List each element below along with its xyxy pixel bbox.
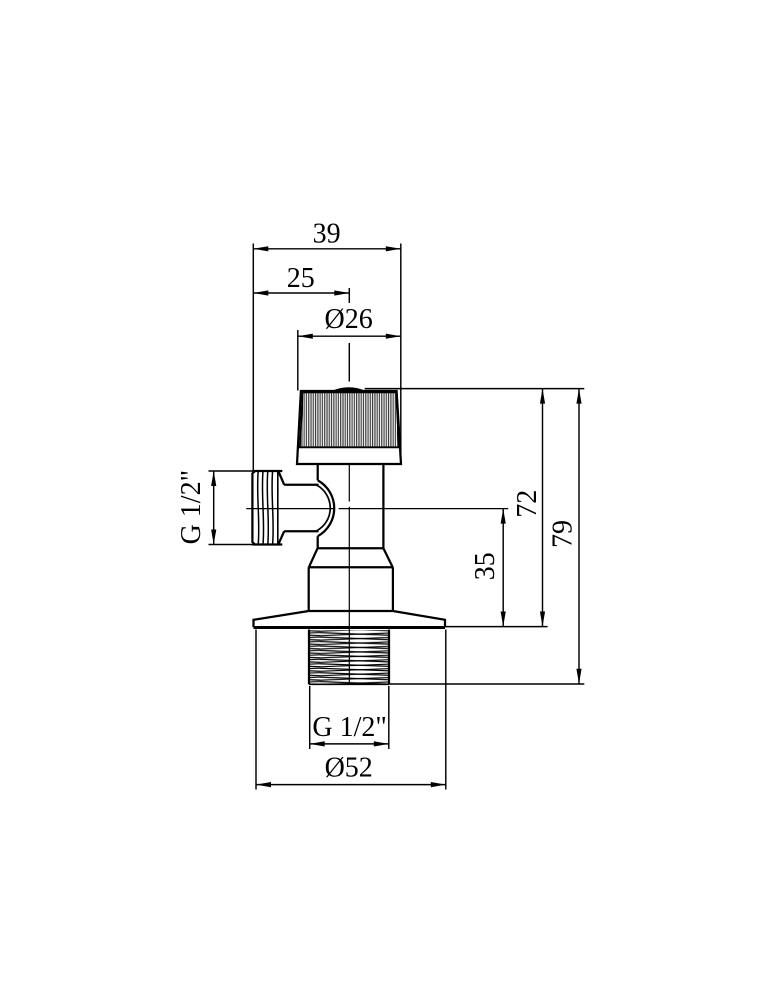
svg-text:39: 39 <box>313 219 341 250</box>
G1/2 left arrows <box>211 471 216 486</box>
svg-text:Ø52: Ø52 <box>325 753 373 784</box>
25 arrows <box>253 290 268 295</box>
horizontal centerline of side port <box>246 508 334 510</box>
side port top edge <box>252 470 282 472</box>
svg-text:72: 72 <box>512 490 543 518</box>
bottom thread left edge <box>308 630 310 685</box>
side port cone bottom <box>278 531 284 544</box>
svg-text:G 1/2": G 1/2" <box>312 712 386 743</box>
dim line 35 <box>502 509 504 627</box>
extension lines G1/2 bottom <box>309 686 311 749</box>
side port dome outer arc <box>318 480 334 536</box>
svg-text:79: 79 <box>547 520 578 548</box>
flange left slant <box>254 611 309 627</box>
79 arrows <box>576 389 581 404</box>
hex section left <box>308 567 310 611</box>
vertical centerline of valve <box>348 392 350 502</box>
extension lines Ø52 <box>255 630 257 790</box>
35 arrows <box>501 509 506 524</box>
side port thread crest 4 <box>272 471 273 545</box>
extension lines G1/2 left <box>209 470 254 472</box>
stem left (below side port) <box>317 536 319 548</box>
dim line G1/2 bottom <box>310 743 389 745</box>
svg-text:25: 25 <box>287 263 315 294</box>
side port neck top <box>284 484 318 486</box>
svg-text:35: 35 <box>470 552 501 580</box>
centerline above knob <box>348 343 350 382</box>
stem right <box>382 464 384 548</box>
knurl band <box>300 392 399 447</box>
side port bottom edge <box>252 543 282 545</box>
bottom thread bottom edge <box>309 683 389 685</box>
knob top stem bump <box>333 388 365 392</box>
thread bottom reference line (to 79 dim) <box>389 683 584 685</box>
side port end face <box>252 471 255 545</box>
dim line G1/2 left <box>213 471 215 545</box>
72 arrows <box>540 389 545 404</box>
side port thread crest 3 <box>267 471 268 545</box>
svg-text:Ø26: Ø26 <box>324 304 372 335</box>
39 arrows <box>253 246 268 251</box>
svg-text:G 1/2": G 1/2" <box>176 470 207 544</box>
Ø26 arrows <box>298 334 313 339</box>
Ø52 arrows <box>256 782 271 787</box>
side port thread crest 1 <box>258 471 259 545</box>
side port thread crest 2 <box>262 471 263 545</box>
dim line 25 <box>253 292 349 294</box>
extension line Ø26 left <box>297 330 299 391</box>
extension line right (39/Ø26 dims, down to knob corner) <box>400 244 402 464</box>
side port dome inner arc <box>316 485 330 531</box>
dim line Ø52 <box>256 784 446 786</box>
knob trapezoid <box>297 391 401 464</box>
dim line 39 <box>253 248 400 250</box>
side port thread end vertical <box>277 471 279 545</box>
side port neck bottom <box>284 530 318 532</box>
bottom thread hatch <box>309 630 389 684</box>
flange right slant <box>393 611 445 627</box>
bottom thread right edge <box>388 630 390 685</box>
dim line Ø26 <box>298 335 401 337</box>
G1/2 bottom arrows <box>310 741 325 746</box>
flange bottom reference line (to 35/72 dims) <box>445 626 547 628</box>
stem left (above side port) <box>317 464 319 480</box>
flange thick bottom <box>254 626 446 629</box>
hex section top <box>309 566 393 568</box>
side port cone top <box>278 471 284 485</box>
hex section right <box>392 567 394 611</box>
top reference line (to 72/79 dims) <box>365 388 585 390</box>
flare right slant <box>383 548 392 567</box>
dim line 72 <box>542 389 544 627</box>
flare left slant <box>309 548 318 567</box>
tick for 25 at center axis <box>348 288 350 303</box>
flange top line <box>309 610 393 612</box>
extension line left (39/25 dims, down to side port) <box>252 244 254 471</box>
flare shoulder <box>318 547 384 549</box>
dim line 79 <box>578 389 580 684</box>
